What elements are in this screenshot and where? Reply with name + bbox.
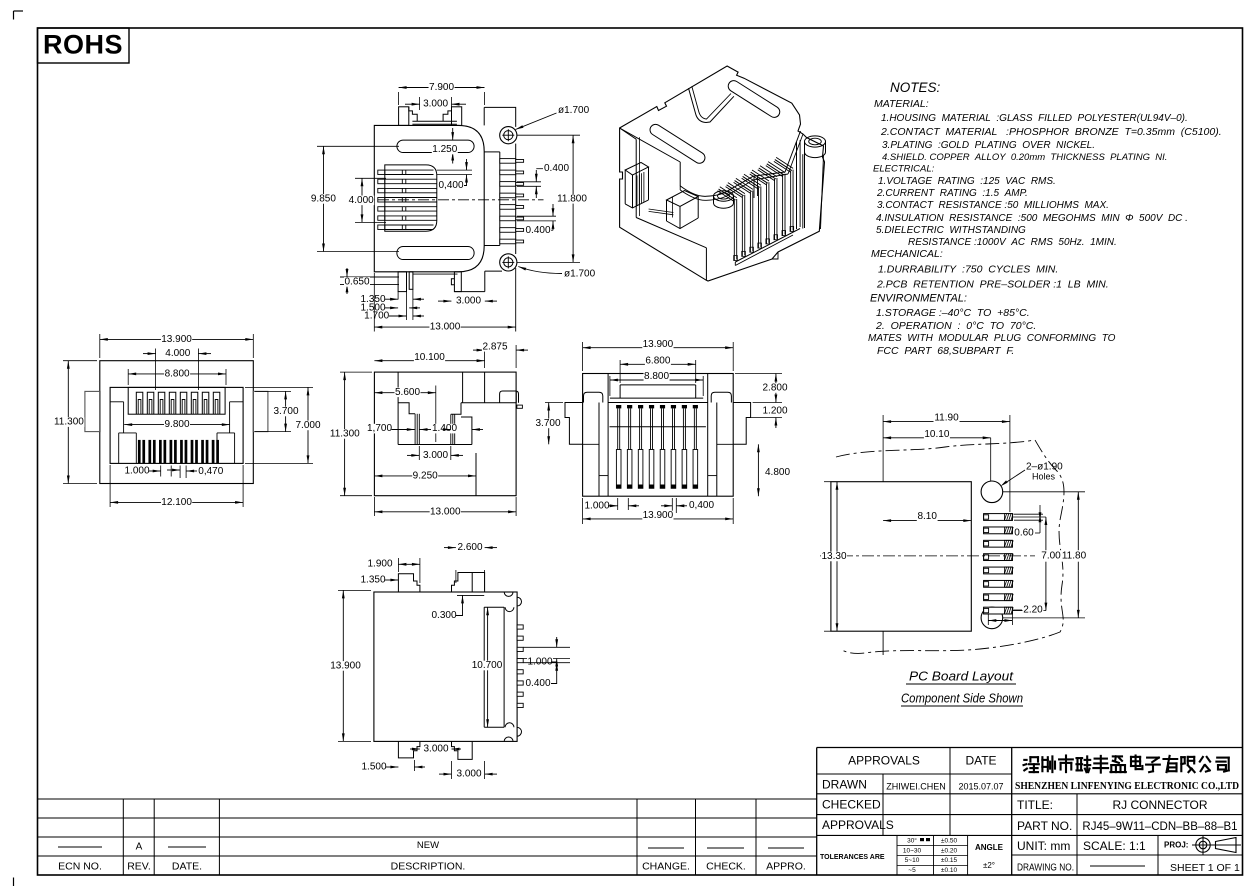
bottom view dim 1.350 <box>360 575 398 586</box>
pcb dim 7.00 and 11.80 <box>1003 492 1087 618</box>
svg-text:1,700: 1,700 <box>367 423 392 434</box>
svg-text:13.30: 13.30 <box>821 551 846 562</box>
top view screw hole bottom o1.700 <box>500 254 517 271</box>
isometric left latch block <box>625 162 648 208</box>
svg-text:1.200: 1.200 <box>762 406 787 417</box>
svg-text:3.000: 3.000 <box>456 768 481 779</box>
isometric view silhouette <box>620 66 825 281</box>
rear view dim 8.800 <box>610 371 703 396</box>
svg-text:1.STORAGE :–40°C TO +85°C.: 1.STORAGE :–40°C TO +85°C. <box>876 307 1030 319</box>
rear view body outline <box>583 374 734 497</box>
corner mark top-left <box>14 11 24 20</box>
side view dim 1.400 <box>420 423 484 434</box>
svg-text:MATERIAL:: MATERIAL: <box>874 98 929 110</box>
svg-text:±2°: ±2° <box>983 861 995 870</box>
bottom view body outline <box>374 592 517 741</box>
rear view dim 13.900 top <box>583 339 734 371</box>
top view upper slot <box>397 140 474 152</box>
svg-text:ø1.700: ø1.700 <box>558 105 590 116</box>
bottom view top tab 2 <box>452 573 485 593</box>
svg-text:~5: ~5 <box>908 867 916 874</box>
front view body outline <box>100 361 254 484</box>
rear view top recess <box>583 374 734 497</box>
rear view dim 1.000 bottom <box>584 498 639 511</box>
svg-text:3.000: 3.000 <box>456 295 481 306</box>
svg-text:±0.15: ±0.15 <box>941 857 958 864</box>
bottom view bottom tab 3 <box>398 741 420 758</box>
front view dim 11.300 <box>53 361 97 484</box>
svg-text:11.80: 11.80 <box>1062 551 1087 562</box>
svg-text:PROJ:: PROJ: <box>1164 841 1188 850</box>
svg-text:2. OPERATION : 0°C TO 70°: 2. OPERATION : 0°C TO 70°C. <box>875 320 1036 332</box>
svg-text:RJ45–9W11–CDN–BB–88–B1: RJ45–9W11–CDN–BB–88–B1 <box>1082 821 1237 833</box>
top view dim 3.000 bottom <box>438 295 497 306</box>
svg-text:5.DIELECTRIC WITHSTANDING: 5.DIELECTRIC WITHSTANDING <box>876 225 1026 236</box>
svg-text:3.CONTACT RESISTANCE :50 MIL: 3.CONTACT RESISTANCE :50 MILLIOHMS MAX. <box>877 200 1109 211</box>
svg-text:RJ CONNECTOR: RJ CONNECTOR <box>1112 798 1207 812</box>
side view dim 11.300 <box>329 372 372 496</box>
svg-text:Component Side Shown: Component Side Shown <box>901 690 1023 705</box>
svg-text:1.500: 1.500 <box>361 762 386 773</box>
rear view dim 2.800 <box>735 374 788 403</box>
svg-text:30°: 30° <box>907 837 917 845</box>
svg-text:2.PCB RETENTION PRE–SOLDER :: 2.PCB RETENTION PRE–SOLDER :1 LB MIN. <box>876 279 1109 291</box>
svg-text:3.000: 3.000 <box>423 450 448 461</box>
front view dim 9.800 <box>124 419 230 430</box>
svg-text:2015.07.07: 2015.07.07 <box>958 781 1003 791</box>
svg-text:1.250: 1.250 <box>432 144 457 155</box>
svg-text:4.INSULATION RESISTANCE :500: 4.INSULATION RESISTANCE :500 MEGOHMS MIN… <box>876 213 1188 224</box>
svg-text:13.000: 13.000 <box>430 322 461 333</box>
front view contact comb <box>128 387 225 414</box>
svg-text:0.400: 0.400 <box>525 678 550 689</box>
svg-text:3.700: 3.700 <box>535 418 560 429</box>
svg-text:CHECK.: CHECK. <box>706 860 746 872</box>
top view housing body <box>374 125 484 271</box>
svg-text:TOLERANCES ARE: TOLERANCES ARE <box>820 854 885 861</box>
svg-text:1.900: 1.900 <box>367 559 392 570</box>
svg-text:ø1.700: ø1.700 <box>564 268 596 279</box>
top view dim 3.000 top <box>405 97 466 110</box>
bottom view dim 1.500 <box>361 760 425 773</box>
svg-text:2.875: 2.875 <box>482 341 507 352</box>
svg-text:11.90: 11.90 <box>934 413 959 424</box>
bottom view dim 13.900 <box>330 590 371 741</box>
svg-text:12.100: 12.100 <box>161 497 192 508</box>
company english name <box>1015 780 1239 792</box>
pcb dim 10.10 <box>883 429 991 481</box>
top view dim o1.700 top label <box>516 105 590 129</box>
svg-text:ELECTRICAL:: ELECTRICAL: <box>873 163 935 174</box>
front view left ear <box>85 391 100 431</box>
pcb mounting hole top <box>981 481 1003 503</box>
top view dim 7.900 <box>399 82 485 105</box>
bottom view bottom tab 4 <box>452 741 485 762</box>
svg-text:13.900: 13.900 <box>643 339 674 350</box>
front view dim 3.700 <box>255 391 299 431</box>
svg-text:13.000: 13.000 <box>430 506 461 517</box>
side view dim 2.875 <box>473 341 528 399</box>
svg-text:Holes: Holes <box>1032 471 1056 481</box>
svg-text:13.900: 13.900 <box>330 661 361 672</box>
svg-text:0,470: 0,470 <box>198 466 223 477</box>
svg-text:NEW: NEW <box>417 840 439 851</box>
svg-text:0.60: 0.60 <box>1014 528 1034 539</box>
notes text block <box>868 80 1222 357</box>
svg-text:2.CONTACT MATERIAL :PHOSPHO: 2.CONTACT MATERIAL :PHOSPHOR BRONZE T=0.… <box>880 126 1222 138</box>
rear view dim 4.800 <box>735 444 791 496</box>
front view dim 12.100 <box>110 465 243 508</box>
top view terminal pins <box>500 159 524 244</box>
bottom view dim 0.400 pins <box>523 663 570 689</box>
isometric right post cylinder <box>805 136 826 229</box>
bottom view dim 10.700 <box>471 607 502 727</box>
side view rear latch tab <box>500 391 523 408</box>
third angle projection symbol <box>1192 836 1241 855</box>
top view contact comb <box>378 165 437 231</box>
svg-text:1.000: 1.000 <box>584 500 609 511</box>
side view dim 13.000 <box>374 497 516 517</box>
svg-text:4.000: 4.000 <box>165 348 190 359</box>
bottom view dim 3.000 mid <box>410 743 461 754</box>
svg-text:SHEET 1 OF 1: SHEET 1 OF 1 <box>1170 862 1240 874</box>
top view dim 13.000 <box>374 273 515 333</box>
svg-text:PART NO.: PART NO. <box>1017 819 1072 833</box>
svg-text:DRAWN: DRAWN <box>822 778 867 792</box>
front view dim 13.900 <box>100 334 254 358</box>
pcb dim 2.20 <box>988 605 1043 625</box>
side view dim 10.100 <box>374 352 484 363</box>
top view dim 0.650 <box>344 268 370 294</box>
svg-text:9.250: 9.250 <box>413 471 438 482</box>
svg-text:APPRO.: APPRO. <box>766 860 806 872</box>
bottom view dim 1.900 <box>367 558 420 583</box>
rear view right ear <box>733 403 750 445</box>
isometric contact cage frame <box>735 140 803 266</box>
bottom view dim 3.000 lower <box>439 761 497 779</box>
svg-text:10.100: 10.100 <box>414 352 445 363</box>
pcb layout view <box>836 440 1064 653</box>
svg-text:0.400: 0.400 <box>525 225 550 236</box>
rear view left ear <box>565 403 583 445</box>
bottom view dim 0.300 <box>431 595 484 621</box>
svg-text:9.850: 9.850 <box>311 194 336 205</box>
top view dim 9.850 <box>310 146 399 251</box>
svg-text:10~30: 10~30 <box>903 848 922 855</box>
svg-text:ANGLE: ANGLE <box>975 843 1004 852</box>
pcb centerline <box>820 555 1037 557</box>
svg-text:FCC PART 68,SUBPART F.: FCC PART 68,SUBPART F. <box>877 345 1014 357</box>
svg-text:±0.50: ±0.50 <box>941 838 958 845</box>
isometric link wire <box>649 209 674 215</box>
svg-text:CHECKED: CHECKED <box>822 798 881 812</box>
svg-text:REV.: REV. <box>127 860 151 872</box>
pcb dim 8.10 <box>883 511 971 522</box>
svg-text:A: A <box>136 842 143 853</box>
svg-text:0.300: 0.300 <box>431 610 456 621</box>
top view dim 4.000 <box>348 178 386 222</box>
bottom view pins <box>517 625 523 708</box>
side view dim 1.700 <box>367 423 415 434</box>
svg-text:3.000: 3.000 <box>423 743 448 754</box>
pcb dim 13.30 <box>821 482 847 632</box>
svg-text:0.400: 0.400 <box>544 163 569 174</box>
svg-text:10.700: 10.700 <box>472 660 503 671</box>
svg-text:0,400: 0,400 <box>438 180 463 191</box>
svg-text:5.600: 5.600 <box>395 387 420 398</box>
bottom view dim 1.000 pins <box>523 637 570 668</box>
bottom view shield band and fold bumps <box>484 592 521 741</box>
top view lower slot <box>397 247 474 260</box>
svg-text:DRAWING NO.: DRAWING NO. <box>1017 863 1074 874</box>
svg-text:7.000: 7.000 <box>295 420 320 431</box>
svg-text:4.800: 4.800 <box>765 467 790 478</box>
svg-text:CHANGE.: CHANGE. <box>642 860 690 872</box>
front view dim 0.470 <box>167 466 224 479</box>
top view bottom tab left <box>340 272 458 320</box>
svg-text:DESCRIPTION.: DESCRIPTION. <box>391 860 466 872</box>
svg-text:4.SHIELD. COPPER ALLOY 0.20m: 4.SHIELD. COPPER ALLOY 0.20mm THICKNESS … <box>882 152 1167 163</box>
bottom view dim 2.600 <box>443 542 497 590</box>
front view right ear <box>253 391 268 431</box>
top view bottom tab right and shield foot <box>451 271 484 292</box>
isometric top slot left <box>650 124 705 163</box>
top view dim 0.400 pins lower <box>517 204 556 236</box>
svg-text:9.800: 9.800 <box>164 419 189 430</box>
svg-text:3.000: 3.000 <box>423 99 448 110</box>
pcb mounting hole bottom <box>981 607 1003 629</box>
top view dim 1.250 <box>432 128 458 164</box>
top view dim o1.700 bottom label <box>518 267 595 280</box>
svg-text:ECN NO.: ECN NO. <box>58 860 102 872</box>
side view cavity profile <box>398 372 516 496</box>
svg-text:SCALE: 1:1: SCALE: 1:1 <box>1083 839 1146 853</box>
pcb holes label 2-o1.90 <box>1001 462 1064 487</box>
svg-text:11.300: 11.300 <box>54 417 84 428</box>
front view dim 1.000 <box>124 466 161 477</box>
svg-text:1.DURRABILITY :750 CYCLES M: 1.DURRABILITY :750 CYCLES MIN. <box>878 264 1058 276</box>
svg-text:APPROVALS: APPROVALS <box>822 818 894 832</box>
svg-text:13.900: 13.900 <box>643 510 674 521</box>
top view dim 11.800 <box>517 135 588 262</box>
corner mark bottom-left <box>13 878 15 887</box>
front view dim 8.800 <box>128 369 226 385</box>
pcb layout captions <box>901 668 1023 706</box>
svg-text:5~10: 5~10 <box>905 857 920 864</box>
svg-text:2.800: 2.800 <box>762 383 787 394</box>
title block labels <box>820 754 1240 875</box>
svg-text:1.HOUSING MATERIAL :GLASS F: 1.HOUSING MATERIAL :GLASS FILLED POLYEST… <box>881 113 1188 124</box>
svg-text:±0.20: ±0.20 <box>941 848 958 855</box>
svg-text:2.20: 2.20 <box>1023 605 1043 616</box>
svg-text:4.000: 4.000 <box>349 195 374 206</box>
svg-text:DATE: DATE <box>965 754 996 768</box>
rear view contacts <box>616 405 698 488</box>
rear view dim 3.700 left <box>535 403 580 445</box>
front view dim 7.000 <box>245 387 321 463</box>
svg-text:7.00: 7.00 <box>1041 551 1061 562</box>
svg-text:3.700: 3.700 <box>273 406 298 417</box>
svg-text:TITLE:: TITLE: <box>1017 798 1053 812</box>
svg-text:1.000: 1.000 <box>124 466 149 477</box>
svg-text:8.10: 8.10 <box>917 511 937 522</box>
svg-text:PC Board Layout: PC Board Layout <box>909 668 1014 683</box>
ROHS logo box <box>38 28 130 63</box>
svg-text:UNIT: mm: UNIT: mm <box>1017 839 1070 853</box>
front view wire slots <box>138 440 219 463</box>
svg-text:8.800: 8.800 <box>165 369 190 380</box>
svg-text:1.700: 1.700 <box>364 311 389 322</box>
bottom view top tab 1 <box>398 574 420 592</box>
svg-text:ENVIRONMENTAL:: ENVIRONMENTAL: <box>870 292 967 304</box>
svg-text:RESISTANCE :1000V AC RMS 50: RESISTANCE :1000V AC RMS 50Hz. 1MIN. <box>908 237 1117 248</box>
svg-text:ROHS: ROHS <box>43 30 123 60</box>
isometric mid latch block <box>667 191 699 229</box>
svg-text:MATES WITH MODULAR PLUG CO: MATES WITH MODULAR PLUG CONFORMING TO <box>868 333 1116 344</box>
top view dim 0.400 pins upper <box>517 163 570 198</box>
side view dim 5.600 <box>374 386 435 443</box>
side view dim 9.250 <box>374 471 476 482</box>
revision table grid <box>38 799 817 875</box>
svg-text:7.900: 7.900 <box>429 82 454 93</box>
pcb dim 0.60 <box>1014 505 1043 539</box>
svg-text:MECHANICAL:: MECHANICAL: <box>871 248 943 260</box>
isometric top slot right <box>728 81 780 118</box>
top view mounting tab top <box>399 107 462 126</box>
svg-text:DATE.: DATE. <box>172 860 202 872</box>
front view dim 4.000 <box>143 348 211 390</box>
rear view dim 1.200 <box>748 403 788 429</box>
isometric plate front rim <box>620 128 803 280</box>
svg-text:APPROVALS: APPROVALS <box>848 754 920 768</box>
svg-text:8.800: 8.800 <box>644 371 669 382</box>
svg-text:NOTES:: NOTES: <box>890 80 941 95</box>
svg-text:11.300: 11.300 <box>330 429 360 440</box>
title block grid <box>817 748 1243 876</box>
top view dim 1.500 <box>360 303 420 314</box>
top view dim 0.400 comb <box>437 159 472 191</box>
svg-text:10.10: 10.10 <box>924 429 949 440</box>
svg-text:3.PLATING :GOLD PLATING OVE: 3.PLATING :GOLD PLATING OVER NICKEL. <box>882 140 1095 151</box>
isometric contact fingers <box>718 157 794 260</box>
isometric small post cylinder <box>714 191 734 208</box>
top view dim 1.700 <box>364 311 424 322</box>
top view screw hole top o1.700 <box>500 127 517 144</box>
svg-text:1.VOLTAGE RATING :125 VAC: 1.VOLTAGE RATING :125 VAC RMS. <box>878 176 1056 187</box>
top view shield plate and holes <box>484 107 516 331</box>
front view port opening <box>110 387 243 463</box>
rear view dim 6.800 <box>620 356 696 383</box>
svg-text:±0.10: ±0.10 <box>941 867 958 874</box>
svg-text:0,400: 0,400 <box>689 500 714 511</box>
rear view corner latch tabs <box>584 392 732 402</box>
isometric C-notch on top plate <box>689 86 734 122</box>
rear view dim 13.900 bottom <box>583 498 734 524</box>
top view centerline <box>358 199 544 201</box>
pcb connector body outline <box>831 482 971 655</box>
svg-text:0.650: 0.650 <box>344 277 369 288</box>
pcb pads <box>984 514 1014 614</box>
svg-text:6.800: 6.800 <box>645 356 670 367</box>
svg-text:SHENZHEN LINFENYING ELECTRONIC: SHENZHEN LINFENYING ELECTRONIC CO.,LTD <box>1015 780 1239 792</box>
top view dim 1.350 <box>360 294 424 305</box>
side view dim 3.000 <box>407 446 463 461</box>
svg-text:1.350: 1.350 <box>360 575 385 586</box>
side view body outline <box>374 372 516 496</box>
svg-text:13.900: 13.900 <box>161 334 192 345</box>
svg-text:2.600: 2.600 <box>457 542 482 553</box>
svg-text:11.800: 11.800 <box>557 193 587 204</box>
svg-text:1.000: 1.000 <box>527 657 552 668</box>
rear view dim 0.400 bottom <box>661 498 715 513</box>
pcb dim 11.90 <box>883 413 1010 512</box>
revision table labels <box>58 840 806 872</box>
company name (CJK strokes) <box>1024 756 1229 773</box>
svg-text:ZHIWEI.CHEN: ZHIWEI.CHEN <box>886 781 946 791</box>
svg-text:2.CURRENT RATING :1.5 AMP.: 2.CURRENT RATING :1.5 AMP. <box>876 188 1028 199</box>
